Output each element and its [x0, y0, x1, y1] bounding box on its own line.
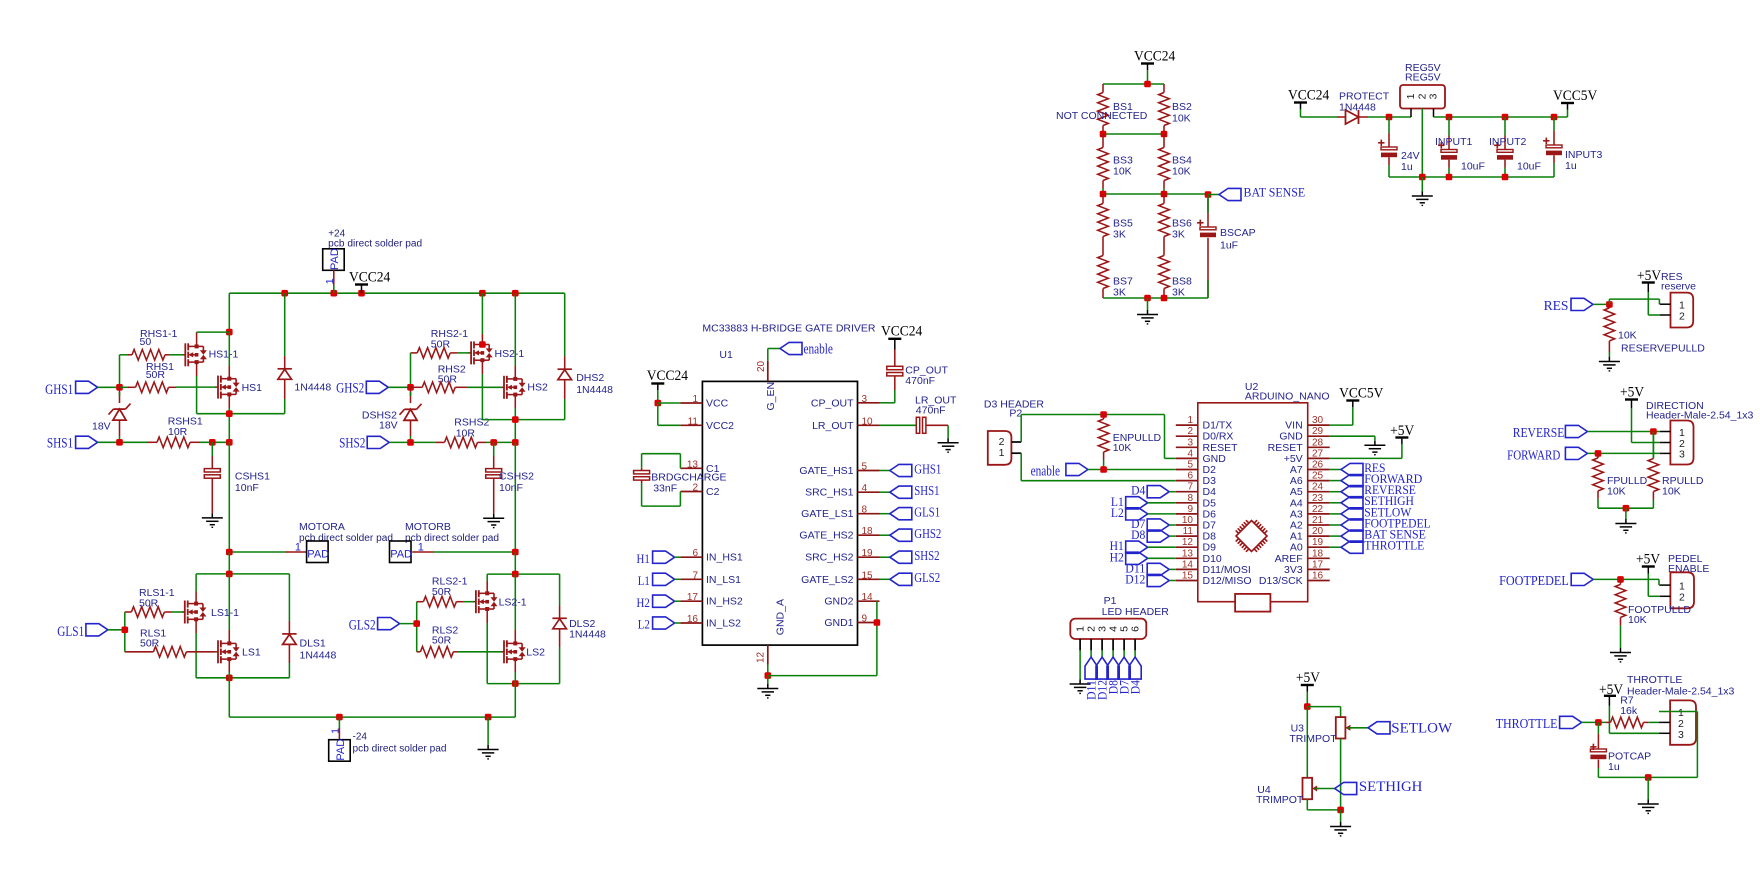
svg-text:SRC_HS1: SRC_HS1: [805, 487, 854, 499]
svg-text:VCC24: VCC24: [1288, 88, 1330, 104]
svg-text:TRIMPOT: TRIMPOT: [1256, 794, 1304, 806]
svg-text:16: 16: [687, 614, 699, 625]
svg-text:THROTTLE: THROTTLE: [1496, 717, 1558, 732]
svg-text:GND_A: GND_A: [775, 599, 787, 635]
svg-text:22: 22: [1312, 504, 1324, 515]
svg-text:GHS2: GHS2: [336, 381, 364, 397]
svg-text:10uF: 10uF: [1461, 161, 1485, 173]
svg-text:16k: 16k: [1620, 705, 1638, 717]
svg-text:1uF: 1uF: [1220, 240, 1238, 252]
svg-text:L2: L2: [1111, 506, 1124, 520]
svg-text:3K: 3K: [1113, 229, 1126, 241]
svg-text:10K: 10K: [1113, 442, 1132, 454]
svg-text:SRC_HS2: SRC_HS2: [805, 552, 854, 564]
svg-text:FOOTPEDEL: FOOTPEDEL: [1499, 574, 1569, 589]
svg-text:18V: 18V: [379, 420, 398, 432]
svg-text:CSHS1: CSHS1: [235, 471, 270, 483]
svg-text:10K: 10K: [1172, 113, 1191, 125]
svg-text:+5V: +5V: [1620, 385, 1644, 401]
svg-text:enable: enable: [804, 342, 834, 358]
svg-text:CSHS2: CSHS2: [499, 471, 534, 483]
svg-text:7: 7: [1187, 482, 1193, 493]
svg-text:ARDUINO_NANO: ARDUINO_NANO: [1245, 391, 1330, 403]
svg-text:L1: L1: [638, 573, 650, 588]
svg-text:1: 1: [692, 394, 698, 405]
svg-text:H2: H2: [1110, 550, 1124, 564]
svg-text:28: 28: [1312, 437, 1324, 448]
svg-text:10K: 10K: [1607, 486, 1626, 498]
svg-text:D12: D12: [1125, 573, 1145, 587]
svg-text:10uF: 10uF: [1517, 161, 1541, 173]
svg-text:1u: 1u: [1608, 761, 1620, 773]
svg-text:pcb direct solder pad: pcb direct solder pad: [353, 744, 447, 755]
svg-text:17: 17: [687, 592, 699, 603]
svg-text:Header-Male-2.54_1x3: Header-Male-2.54_1x3: [1646, 410, 1754, 422]
svg-text:VCC: VCC: [706, 398, 729, 410]
svg-text:RESERVEPULLD: RESERVEPULLD: [1621, 343, 1705, 355]
svg-text:reserve: reserve: [1661, 281, 1696, 293]
svg-text:BSCAP: BSCAP: [1220, 227, 1256, 239]
svg-text:14: 14: [1182, 559, 1194, 570]
svg-text:Header-Male-2.54_1x3: Header-Male-2.54_1x3: [1627, 686, 1735, 698]
svg-text:50R: 50R: [146, 369, 166, 381]
svg-text:L2: L2: [638, 617, 650, 632]
svg-text:27: 27: [1312, 448, 1324, 459]
svg-text:50: 50: [140, 336, 152, 348]
svg-text:8: 8: [862, 505, 868, 516]
svg-text:PAD: PAD: [390, 548, 412, 560]
svg-text:LS1: LS1: [242, 647, 261, 659]
svg-text:5: 5: [1187, 460, 1193, 471]
svg-text:9: 9: [862, 614, 868, 625]
svg-text:1N4448: 1N4448: [576, 384, 613, 396]
svg-text:470nF: 470nF: [916, 405, 946, 417]
svg-text:D8: D8: [1131, 528, 1145, 542]
svg-text:2: 2: [1187, 426, 1193, 437]
svg-text:18: 18: [862, 526, 874, 537]
svg-text:LS2-1: LS2-1: [499, 597, 527, 609]
svg-text:1: 1: [324, 278, 336, 284]
svg-text:GHS1: GHS1: [45, 382, 73, 398]
svg-text:PAD: PAD: [335, 739, 347, 761]
svg-text:SHS1: SHS1: [914, 483, 939, 498]
svg-text:1: 1: [1405, 93, 1417, 99]
svg-text:2: 2: [1679, 311, 1685, 323]
svg-text:20: 20: [1312, 526, 1324, 537]
svg-text:18V: 18V: [92, 421, 111, 433]
svg-text:2: 2: [1679, 592, 1685, 604]
svg-text:MOTORA: MOTORA: [299, 521, 345, 533]
svg-text:10nF: 10nF: [235, 482, 259, 494]
svg-text:1N4448: 1N4448: [569, 629, 606, 641]
svg-text:GLS1: GLS1: [914, 505, 940, 520]
svg-text:BS2: BS2: [1172, 101, 1192, 113]
svg-text:HS1-1: HS1-1: [209, 349, 239, 361]
svg-text:6: 6: [692, 548, 698, 559]
svg-text:GLS2: GLS2: [914, 570, 940, 585]
svg-text:IN_LS2: IN_LS2: [706, 618, 741, 630]
svg-text:INPUT2: INPUT2: [1489, 136, 1527, 148]
svg-text:GATE_HS2: GATE_HS2: [799, 530, 853, 542]
svg-text:RES: RES: [1544, 299, 1569, 314]
svg-text:3: 3: [1187, 437, 1193, 448]
svg-text:3: 3: [1428, 93, 1440, 99]
svg-text:BAT SENSE: BAT SENSE: [1244, 186, 1306, 200]
svg-text:PAD: PAD: [329, 248, 341, 270]
svg-text:1N4448: 1N4448: [300, 650, 337, 662]
svg-text:9: 9: [1187, 504, 1193, 515]
svg-text:3K: 3K: [1172, 229, 1185, 241]
svg-text:GND1: GND1: [824, 617, 853, 629]
svg-text:50R: 50R: [432, 634, 452, 646]
svg-text:4: 4: [862, 483, 868, 494]
svg-text:2: 2: [1417, 93, 1429, 99]
svg-text:19: 19: [862, 548, 874, 559]
svg-text:HS1: HS1: [242, 382, 263, 394]
svg-text:10: 10: [862, 416, 874, 427]
svg-text:-24: -24: [353, 732, 368, 743]
svg-text:1: 1: [999, 447, 1005, 459]
svg-text:7: 7: [692, 570, 698, 581]
svg-text:19: 19: [1312, 537, 1324, 548]
svg-text:6: 6: [1187, 471, 1193, 482]
svg-text:SHS2: SHS2: [914, 548, 939, 563]
svg-text:1: 1: [295, 542, 301, 554]
svg-text:CP_OUT: CP_OUT: [811, 397, 854, 409]
svg-text:VCC5V: VCC5V: [1553, 88, 1597, 104]
svg-text:50R: 50R: [140, 637, 160, 649]
svg-text:IN_LS1: IN_LS1: [706, 574, 741, 586]
svg-text:D13/SCK: D13/SCK: [1259, 575, 1303, 587]
svg-text:10K: 10K: [1662, 486, 1681, 498]
svg-text:13: 13: [687, 459, 699, 470]
svg-text:470nF: 470nF: [905, 375, 935, 387]
svg-text:LS1-1: LS1-1: [211, 607, 239, 619]
svg-text:THROTTLE: THROTTLE: [1364, 539, 1424, 553]
svg-text:IN_HS2: IN_HS2: [706, 596, 743, 608]
svg-text:10K: 10K: [1628, 614, 1647, 626]
svg-text:GND2: GND2: [824, 596, 853, 608]
svg-text:3: 3: [862, 394, 868, 405]
svg-text:U1: U1: [719, 349, 733, 361]
svg-text:VCC5V: VCC5V: [1339, 386, 1383, 402]
svg-text:15: 15: [1182, 571, 1194, 582]
svg-text:LR_OUT: LR_OUT: [812, 420, 854, 432]
svg-text:3: 3: [1679, 449, 1685, 461]
svg-text:GATE_LS1: GATE_LS1: [801, 508, 853, 520]
svg-text:23: 23: [1312, 493, 1324, 504]
svg-text:24: 24: [1312, 482, 1324, 493]
svg-text:MC33883 H-BRIDGE GATE DRIVER: MC33883 H-BRIDGE GATE DRIVER: [702, 323, 876, 335]
svg-text:25: 25: [1312, 471, 1324, 482]
svg-text:C2: C2: [706, 486, 720, 498]
svg-text:10R: 10R: [168, 426, 188, 438]
svg-text:15: 15: [862, 570, 874, 581]
svg-text:10K: 10K: [1172, 166, 1191, 178]
svg-text:GATE_HS1: GATE_HS1: [799, 465, 853, 477]
svg-text:enable: enable: [1031, 464, 1061, 480]
svg-text:INPUT1: INPUT1: [1435, 136, 1473, 148]
svg-text:VCC2: VCC2: [706, 420, 734, 432]
svg-text:REG5V: REG5V: [1405, 72, 1441, 84]
svg-text:12: 12: [756, 651, 767, 663]
svg-text:SHS1: SHS1: [47, 436, 73, 452]
svg-text:6: 6: [1129, 626, 1141, 632]
svg-text:FORWARD: FORWARD: [1507, 448, 1560, 463]
svg-text:H2: H2: [637, 595, 650, 610]
svg-text:G_EN: G_EN: [765, 382, 777, 411]
svg-text:SETLOW: SETLOW: [1391, 721, 1453, 737]
svg-text:GLS1: GLS1: [57, 624, 84, 640]
svg-text:8: 8: [1187, 493, 1193, 504]
svg-text:1: 1: [329, 728, 341, 734]
svg-text:1: 1: [1187, 415, 1193, 426]
svg-text:GLS2: GLS2: [349, 618, 376, 634]
svg-text:10K: 10K: [1618, 330, 1637, 342]
svg-text:17: 17: [1312, 559, 1324, 570]
svg-text:GHS2: GHS2: [914, 526, 941, 541]
svg-text:D4: D4: [1131, 484, 1146, 498]
svg-text:13: 13: [1182, 548, 1194, 559]
svg-text:TRIMPOT: TRIMPOT: [1289, 733, 1337, 745]
svg-text:1u: 1u: [1565, 160, 1577, 172]
svg-text:THROTTLE: THROTTLE: [1627, 674, 1682, 686]
svg-text:2: 2: [692, 483, 698, 494]
svg-text:10: 10: [1182, 515, 1194, 526]
svg-text:DHS2: DHS2: [576, 372, 604, 384]
svg-text:REVERSE: REVERSE: [1513, 426, 1565, 441]
svg-text:LS2: LS2: [526, 647, 545, 659]
svg-text:+5V: +5V: [1636, 552, 1660, 568]
svg-text:12: 12: [1182, 537, 1194, 548]
svg-text:pcb direct solder pad: pcb direct solder pad: [328, 239, 422, 250]
svg-text:11: 11: [688, 416, 699, 427]
svg-text:H1: H1: [637, 551, 650, 566]
svg-text:HS2-1: HS2-1: [495, 348, 525, 360]
svg-text:1N4448: 1N4448: [294, 381, 331, 393]
svg-text:1N4448: 1N4448: [1339, 102, 1376, 114]
svg-text:3: 3: [1678, 729, 1684, 741]
svg-text:SHS2: SHS2: [339, 436, 365, 452]
svg-text:SETHIGH: SETHIGH: [1359, 779, 1423, 795]
svg-text:21: 21: [1312, 515, 1324, 526]
svg-text:10R: 10R: [456, 428, 476, 440]
svg-text:1u: 1u: [1401, 161, 1413, 173]
svg-text:pcb direct solder pad: pcb direct solder pad: [299, 533, 393, 544]
svg-text:10nF: 10nF: [499, 482, 523, 494]
svg-text:HS2: HS2: [527, 382, 548, 394]
svg-text:IN_HS1: IN_HS1: [706, 552, 743, 564]
svg-text:VCC24: VCC24: [349, 270, 391, 286]
svg-text:33nF: 33nF: [653, 482, 677, 494]
svg-text:NOT CONNECTED: NOT CONNECTED: [1056, 110, 1148, 122]
svg-text:GATE_LS2: GATE_LS2: [801, 574, 853, 586]
svg-text:MOTORB: MOTORB: [405, 521, 451, 533]
svg-text:20: 20: [756, 360, 767, 372]
svg-text:50R: 50R: [431, 339, 451, 351]
svg-text:DLS1: DLS1: [300, 638, 326, 650]
svg-text:D12/MISO: D12/MISO: [1203, 575, 1252, 587]
svg-text:30: 30: [1312, 415, 1324, 426]
svg-text:10K: 10K: [1113, 166, 1132, 178]
svg-text:GHS1: GHS1: [914, 461, 941, 476]
svg-text:LED HEADER: LED HEADER: [1102, 606, 1170, 618]
svg-text:VCC24: VCC24: [1134, 49, 1176, 65]
svg-text:29: 29: [1312, 426, 1324, 437]
svg-text:PAD: PAD: [307, 548, 329, 560]
svg-text:3K: 3K: [1113, 287, 1126, 299]
svg-text:18: 18: [1312, 548, 1324, 559]
svg-text:11: 11: [1183, 526, 1194, 537]
svg-text:14: 14: [862, 592, 874, 603]
svg-text:4: 4: [1187, 448, 1193, 459]
svg-text:16: 16: [1312, 571, 1324, 582]
svg-text:D4: D4: [1128, 679, 1142, 694]
svg-text:VCC24: VCC24: [647, 368, 689, 384]
svg-text:26: 26: [1312, 460, 1324, 471]
svg-text:VCC24: VCC24: [881, 324, 923, 340]
svg-text:3K: 3K: [1172, 287, 1185, 299]
svg-text:5: 5: [862, 462, 868, 473]
